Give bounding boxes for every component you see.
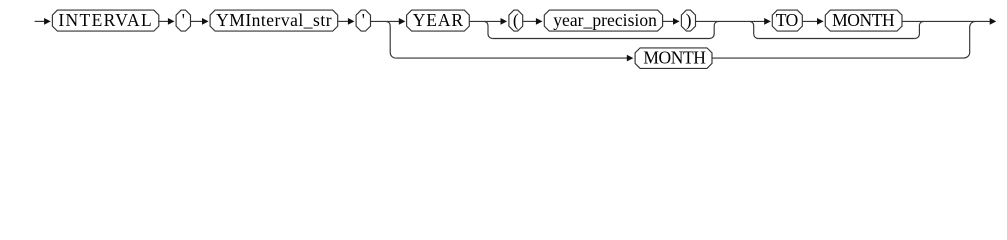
terminal TO <box>772 10 802 31</box>
arrowhead before quote1 <box>168 18 175 25</box>
wire row2 merge up <box>964 21 976 58</box>
wire row2 left segment <box>396 57 628 59</box>
svg-text:': ' <box>182 10 185 30</box>
terminal rparen <box>681 10 695 31</box>
terminal quote2 <box>356 10 370 31</box>
arrowhead before quote2 <box>348 18 355 25</box>
wire YMInterval_str to quote2 <box>338 20 350 22</box>
wire bypass split A <box>484 21 493 38</box>
svg-text:MONTH: MONTH <box>643 47 706 67</box>
wire bypass merge A <box>710 21 719 38</box>
terminal YMInterval_str <box>210 10 338 31</box>
terminal YEAR <box>407 10 470 31</box>
wire MONTH to end arrow <box>902 20 991 22</box>
terminal lparen <box>509 10 523 31</box>
arrowhead before YMInterval_str <box>202 18 209 25</box>
arrowhead before year_precision <box>536 18 543 25</box>
terminal quote1 <box>176 10 190 31</box>
arrowhead before lparen <box>501 18 508 25</box>
svg-text:YEAR: YEAR <box>413 10 464 30</box>
wire lparen to year_precision <box>523 20 538 22</box>
terminal year_precision <box>544 10 662 31</box>
svg-text:': ' <box>362 10 365 30</box>
arrowhead end <box>990 18 997 25</box>
wire YEAR to lparen <box>469 20 502 22</box>
arrowhead start <box>44 18 51 25</box>
wire bypass line B <box>758 38 915 40</box>
svg-text:(: ( <box>513 10 519 30</box>
wire bypass line A <box>493 38 710 40</box>
wire year_precision to rparen <box>663 20 675 22</box>
terminal INTERVAL <box>52 10 158 31</box>
svg-text:TO: TO <box>776 10 798 30</box>
svg-text:MONTH: MONTH <box>832 10 895 30</box>
wire row2 right segment <box>712 57 964 59</box>
arrowhead before rparen <box>673 18 680 25</box>
arrowhead before MONTH row1 <box>817 18 824 25</box>
svg-text:INTERVAL: INTERVAL <box>58 10 153 30</box>
svg-text:year_precision: year_precision <box>553 10 657 30</box>
wire TO to MONTH <box>802 20 818 22</box>
arrowhead before TO <box>764 18 771 25</box>
terminal MONTH row1 <box>825 10 902 31</box>
wire bypass merge B <box>915 21 924 38</box>
wire quote1 to YMInterval_str <box>191 20 204 22</box>
arrowhead before MONTH row2 <box>627 55 634 62</box>
wire branch descent to row2 <box>386 21 397 58</box>
svg-text:): ) <box>686 10 692 30</box>
wire INTERVAL to quote1 <box>159 20 170 22</box>
wire bypass split B <box>749 21 758 38</box>
arrowhead before YEAR <box>399 18 406 25</box>
terminal MONTH row2 <box>635 48 712 69</box>
wire quote2 to YEAR <box>371 20 401 22</box>
wire start <box>35 20 46 22</box>
svg-text:YMInterval_str: YMInterval_str <box>216 10 332 30</box>
wire rparen to TO <box>696 20 766 22</box>
